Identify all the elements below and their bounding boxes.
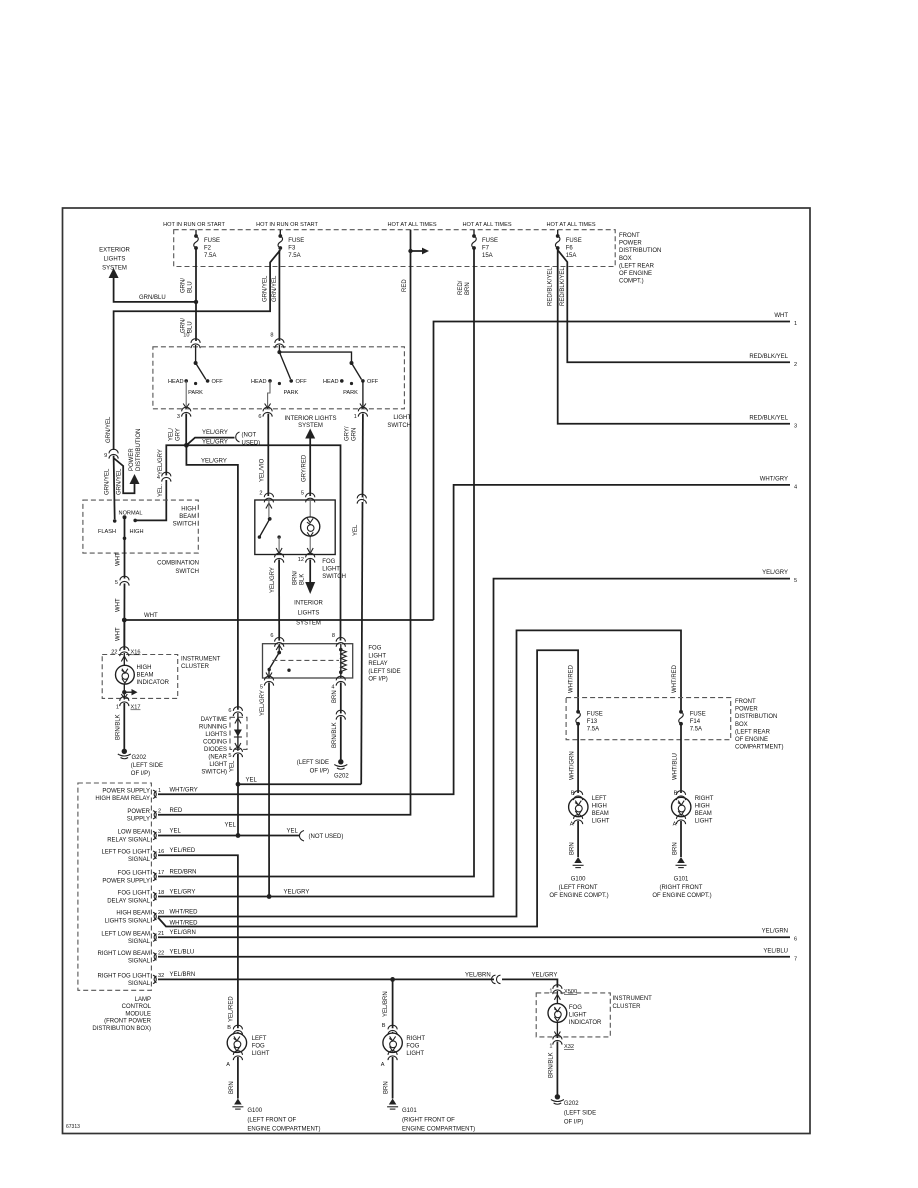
connector 5 (DRL bottom): [233, 748, 242, 757]
switch 3 PARK contact: [350, 382, 353, 385]
svg-text:YEL/GRY: YEL/GRY: [284, 890, 310, 896]
svg-text:WHT: WHT: [774, 313, 788, 319]
wire feed stub above fuse F2: [195, 230, 197, 236]
connector X32 (instrument cluster bottom): [553, 1035, 562, 1044]
wire GRN/YEL: fuse F3 right branch to light switch pin 8: [278, 250, 280, 341]
svg-text:G202(LEFT SIDEOF I/P): G202(LEFT SIDEOF I/P): [131, 755, 163, 777]
combination switch dashed box: [83, 500, 198, 553]
svg-text:HIGHBEAMINDICATOR: HIGHBEAMINDICATOR: [137, 665, 170, 686]
node GRN/BLU branch: [194, 300, 198, 304]
switch 1 OFF contact: [206, 379, 210, 383]
svg-text:WHT: WHT: [144, 613, 158, 619]
connector relay pin 8: [336, 637, 345, 646]
svg-text:FUSEF615A: FUSEF615A: [566, 238, 582, 259]
wire YEL/GRY relay pin 5 down to module pin 18 line: [268, 683, 270, 897]
svg-text:GRY/RED: GRY/RED: [302, 454, 308, 482]
svg-text:YEL/VIO: YEL/VIO: [260, 458, 266, 482]
svg-text:HEAD: HEAD: [323, 379, 339, 385]
svg-text:NORMAL: NORMAL: [119, 511, 143, 517]
svg-text:GRN/YEL: GRN/YEL: [116, 468, 122, 495]
daytime running lights coding diodes dashed box: [230, 717, 247, 749]
svg-text:YEL: YEL: [287, 829, 299, 835]
svg-text:FOG LIGHTDELAY SIGNAL: FOG LIGHTDELAY SIGNAL: [107, 891, 150, 905]
ground G100 (left high beam light): [573, 857, 584, 868]
connector fog switch pin 2: [264, 493, 273, 502]
RED feed: stub from box top, node, arrow into box: [410, 230, 412, 251]
svg-text:17: 17: [158, 870, 164, 876]
exit chevron: [121, 694, 127, 699]
svg-text:5: 5: [228, 753, 231, 759]
relay actuation dashed link: [272, 659, 339, 661]
fog switch left contact: [258, 535, 261, 538]
svg-text:B: B: [227, 1025, 231, 1031]
fuse F13: [576, 710, 581, 726]
fog switch bulb feed: [309, 500, 311, 517]
fog light indicator feed: [556, 991, 558, 1004]
svg-text:FUSEF27.5A: FUSEF27.5A: [204, 238, 220, 259]
svg-text:YEL/GRY: YEL/GRY: [158, 449, 164, 475]
wire GRN/BLU from fuse F2 to light switch pin 10: [195, 249, 197, 342]
fuse F7: [472, 234, 477, 250]
relay coil: [340, 644, 342, 678]
wire feed stub above fuse F7: [473, 230, 475, 236]
svg-text:YEL/BRN: YEL/BRN: [383, 991, 389, 1017]
wire WHT horizontal to right riser: [124, 619, 433, 621]
svg-text:67313: 67313: [66, 1124, 80, 1130]
svg-text:HOT AT ALL TIMES: HOT AT ALL TIMES: [546, 222, 595, 228]
high beam switch pivot: [123, 515, 127, 519]
svg-text:YEL/RED: YEL/RED: [170, 848, 196, 854]
module pin 32: [153, 975, 157, 983]
svg-text:5: 5: [115, 580, 118, 586]
svg-text:B: B: [382, 1023, 386, 1029]
node YEL/GRY joins pin 18 wire: [267, 894, 272, 899]
svg-text:FUSEF37.5A: FUSEF37.5A: [288, 238, 304, 259]
svg-text:A: A: [570, 822, 574, 828]
fog switch output contact: [277, 535, 280, 538]
svg-text:LAMPCONTROLMODULE(FRONT POWERD: LAMPCONTROLMODULE(FRONT POWERDISTRIBUTIO…: [92, 997, 151, 1032]
svg-text:HIGHBEAMSWITCH: HIGHBEAMSWITCH: [173, 507, 197, 528]
svg-text:1: 1: [794, 321, 797, 327]
wire RED/BRN from fuse F7 to module pin 17: [158, 249, 474, 877]
svg-text:YEL/GRY: YEL/GRY: [202, 439, 228, 445]
svg-text:WHT/RED: WHT/RED: [170, 920, 199, 926]
svg-text:YEL/GRN: YEL/GRN: [170, 930, 196, 936]
svg-text:1: 1: [549, 1044, 552, 1050]
wire GRN/YEL branch to power distribution arrow: [114, 458, 135, 493]
fog switch bulb exit arrow: [307, 548, 313, 554]
wire WHT node to cluster connector: [123, 620, 125, 650]
svg-text:10: 10: [183, 333, 189, 339]
svg-text:WHT/RED: WHT/RED: [672, 664, 678, 693]
wire GRN/YEL: fuse F3 left branch down-left-down to connector 9: [114, 250, 281, 450]
svg-text:FOGLIGHTINDICATOR: FOGLIGHTINDICATOR: [569, 1005, 602, 1026]
svg-text:BRN: BRN: [229, 1081, 235, 1094]
switch 1 PARK contact: [194, 382, 197, 385]
svg-text:8: 8: [332, 633, 335, 639]
fog switch entry arrow (pin 2): [266, 503, 272, 509]
wire YEL/GRY connector to instrument cluster X500: [502, 979, 557, 987]
svg-text:FOGLIGHTRELAY(LEFT SIDEOF I/P): FOGLIGHTRELAY(LEFT SIDEOF I/P): [368, 646, 400, 683]
svg-text:INSTRUMENTCLUSTER: INSTRUMENTCLUSTER: [181, 657, 221, 671]
svg-text:BRN: BRN: [570, 842, 576, 855]
svg-text:HOT AT ALL TIMES: HOT AT ALL TIMES: [387, 222, 436, 228]
svg-text:4: 4: [331, 685, 334, 691]
ground G101 (right high beam light): [676, 857, 687, 868]
svg-text:YEL/RED: YEL/RED: [229, 996, 235, 1022]
svg-text:YEL/GRY: YEL/GRY: [762, 570, 788, 576]
svg-text:FLASH: FLASH: [98, 529, 116, 535]
wire WHT connector 5 to node: [123, 584, 125, 651]
relay contact dot: [287, 669, 290, 672]
connector below fog switch (YEL/GRY out): [275, 553, 284, 562]
ground G202 (fog light indicator): [551, 1094, 564, 1104]
fuse F14: [679, 710, 684, 726]
connector pin 8 (light switch top): [275, 339, 284, 348]
svg-text:(NOTUSED): (NOTUSED): [242, 433, 261, 447]
node and stub arrow right: [122, 690, 126, 694]
fog light switch box: [255, 500, 335, 555]
wire YEL horizontal to DRL node: [238, 783, 361, 785]
svg-text:RED/BLK/YEL: RED/BLK/YEL: [749, 415, 788, 421]
svg-text:YEL/GRY: YEL/GRY: [170, 890, 196, 896]
HIGH contact: [133, 519, 137, 523]
svg-text:HOT AT ALL TIMES: HOT AT ALL TIMES: [462, 222, 511, 228]
svg-text:BRN/BLK: BRN/BLK: [293, 570, 306, 585]
svg-text:RIGHTHIGHBEAMLIGHT: RIGHTHIGHBEAMLIGHT: [695, 796, 714, 825]
switch 3 output to pin 1: [362, 381, 364, 409]
wire BRN/BLK to ground G202: [123, 703, 125, 750]
svg-text:WHT: WHT: [116, 627, 122, 641]
wire WHT riser and wire 1 to right edge: [434, 322, 791, 621]
svg-text:22: 22: [111, 650, 117, 656]
connector 1 / X17: [120, 697, 129, 706]
svg-text:5: 5: [794, 578, 797, 584]
svg-text:4: 4: [794, 484, 797, 490]
svg-text:POWER SUPPLYHIGH BEAM RELAY: POWER SUPPLYHIGH BEAM RELAY: [95, 789, 150, 803]
svg-text:GRN/BLU: GRN/BLU: [139, 295, 166, 301]
wire YEL/BRN pin 32 to right fog light node and connector: [158, 978, 494, 980]
svg-text:6: 6: [270, 633, 273, 639]
svg-text:RED/BLK/YEL: RED/BLK/YEL: [560, 267, 566, 306]
svg-text:YEL/GRY: YEL/GRY: [169, 428, 182, 441]
svg-text:POWERDISTRIBUTION: POWERDISTRIBUTION: [129, 429, 142, 471]
ground G101 (right fog light): [387, 1099, 398, 1110]
connector relay pin 4: [336, 676, 345, 685]
connector fog switch pin 12: [306, 553, 315, 562]
wire BRN relay pin 4 to connector: [340, 683, 342, 714]
svg-text:RED/BLK/YEL: RED/BLK/YEL: [548, 267, 554, 306]
svg-text:RED/BRN: RED/BRN: [458, 280, 471, 295]
svg-text:GRN/YEL: GRN/YEL: [106, 416, 112, 443]
connector 9 (combination switch feed): [109, 449, 118, 458]
wire WHT/RED pin 20 lower to fuse F13: [158, 650, 578, 926]
svg-text:1: 1: [116, 705, 119, 711]
svg-text:LEFT LOW BEAMSIGNAL: LEFT LOW BEAMSIGNAL: [101, 931, 150, 945]
svg-text:YEL/GRN: YEL/GRN: [762, 929, 788, 935]
switch 1 HEAD contact: [184, 379, 188, 383]
svg-text:OFF: OFF: [367, 379, 379, 385]
switch 3 OFF contact: [361, 379, 365, 383]
svg-text:RIGHT LOW BEAMSIGNAL: RIGHT LOW BEAMSIGNAL: [97, 951, 150, 965]
not-used bracket and caption: [236, 432, 240, 442]
wire BRN/BLK to ground G202: [340, 717, 342, 761]
svg-text:HEAD: HEAD: [251, 379, 267, 385]
off-page arrow up to interior lights system: [305, 429, 315, 439]
svg-text:B: B: [674, 791, 678, 797]
svg-text:G101(RIGHT FRONT OFENGINE COMP: G101(RIGHT FRONT OFENGINE COMPARTMENT): [402, 1108, 475, 1133]
svg-text:GRN/BLU: GRN/BLU: [181, 278, 194, 293]
svg-text:6: 6: [258, 414, 261, 420]
fog light relay box: [263, 644, 353, 678]
svg-text:G100(LEFT FRONT OFENGINE COMPA: G100(LEFT FRONT OFENGINE COMPARTMENT): [247, 1108, 320, 1133]
svg-text:1: 1: [549, 989, 552, 995]
svg-text:BRN/BLK: BRN/BLK: [549, 1052, 555, 1078]
svg-text:X17: X17: [131, 705, 141, 711]
connector pin 6 (light switch bottom): [263, 407, 272, 416]
svg-text:G202(LEFT SIDEOF I/P): G202(LEFT SIDEOF I/P): [564, 1101, 596, 1126]
svg-text:WHT/RED: WHT/RED: [170, 910, 199, 916]
svg-text:RED/BLK/YEL: RED/BLK/YEL: [749, 354, 788, 360]
svg-text:HOT IN RUN OR START: HOT IN RUN OR START: [163, 222, 225, 228]
wire YEL pin 3 to not-used stub: [158, 835, 300, 837]
right fog light connector B: [388, 1025, 397, 1034]
wire BRN/BLK to ground G202: [556, 1042, 558, 1096]
right high beam light connector A: [676, 815, 685, 824]
svg-text:FUSEF147.5A: FUSEF147.5A: [690, 712, 706, 733]
svg-text:GRN/YEL: GRN/YEL: [105, 468, 111, 495]
svg-text:9: 9: [104, 453, 107, 459]
fuse F3: [278, 234, 283, 250]
ground G202 (instrument cluster): [118, 749, 131, 759]
switch 3 HEAD contact: [340, 379, 344, 383]
svg-text:BRN/BLK: BRN/BLK: [116, 714, 122, 740]
svg-text:YEL/GRY: YEL/GRY: [202, 430, 228, 436]
wire BRN/BLK fog switch pin 12 down: [309, 560, 311, 584]
left fog light connector A: [233, 1051, 242, 1060]
left fog light bulb: [237, 1032, 239, 1033]
svg-text:HIGH BEAMLIGHTS SIGNAL: HIGH BEAMLIGHTS SIGNAL: [105, 911, 151, 925]
module pin 17: [153, 872, 157, 880]
module pin 1: [153, 790, 157, 798]
wire YEL/GRY fog switch to relay pin 6: [278, 560, 280, 643]
svg-text:PARK: PARK: [284, 390, 299, 396]
off-page arrow to power distribution: [130, 474, 140, 484]
svg-text:22: 22: [158, 951, 164, 957]
switch 3 pivot: [350, 361, 354, 365]
switch 2 OFF contact: [289, 379, 293, 383]
svg-text:OFF: OFF: [212, 379, 224, 385]
svg-text:YEL/BRN: YEL/BRN: [170, 972, 196, 978]
svg-text:GRY/GRN: GRY/GRN: [345, 426, 358, 441]
switch 2 arm to OFF: [279, 352, 290, 379]
svg-text:(LEFT SIDEOF I/P): (LEFT SIDEOF I/P): [297, 760, 329, 775]
svg-text:YEL/BRN: YEL/BRN: [465, 972, 491, 978]
wire YEL/BRN right fog light drop: [392, 979, 394, 1028]
svg-text:(NOT USED): (NOT USED): [309, 834, 344, 840]
switch section 1: feed wire to pivot: [195, 345, 197, 363]
svg-text:YEL/GRY: YEL/GRY: [532, 972, 558, 978]
high beam switch arm (normal position): [124, 517, 126, 538]
wire RED vertical (fusebox to module pin 2): [158, 251, 411, 815]
high beam indicator feed wire: [123, 653, 125, 665]
svg-text:A: A: [673, 822, 677, 828]
wire YEL/GRY main run to fog light relay pin 8: [186, 445, 340, 640]
module pin 21: [153, 933, 157, 941]
wire YEL/GRY (wire 5) from module pin 18 to right edge: [158, 579, 790, 897]
svg-text:PARK: PARK: [343, 390, 358, 396]
svg-text:HOT IN RUN OR START: HOT IN RUN OR START: [256, 222, 318, 228]
svg-text:POWERSUPPLY: POWERSUPPLY: [127, 809, 151, 823]
wire WHT/GRY (wire 4) from module pin 1 to right edge: [158, 485, 790, 794]
fog light indicator bulb: [548, 1004, 567, 1023]
wire BRN to ground G100: [237, 1057, 239, 1099]
junction node YEL/GRY hub: [184, 443, 189, 448]
node YEL at DRL bottom: [236, 782, 241, 787]
svg-text:HEAD: HEAD: [168, 379, 184, 385]
DRL internal wire with arrows: [237, 713, 239, 751]
connector X500 (instrument cluster top): [553, 985, 562, 994]
connector pin 1 (light switch bottom): [358, 407, 367, 416]
module pin 16: [153, 851, 157, 859]
light switch dashed box: [153, 347, 405, 409]
svg-text:18: 18: [158, 890, 164, 896]
wire YEL/GRN (wire 6) from module pin 21 to right edge: [158, 936, 790, 938]
instrument cluster dashed box (high beam indicator): [102, 655, 178, 699]
svg-text:HIGH: HIGH: [130, 529, 144, 535]
connector pin 3 (light switch bottom): [182, 407, 191, 416]
svg-text:WHT/RED: WHT/RED: [569, 664, 575, 693]
svg-text:G101(RIGHT FRONTOF ENGINE COMP: G101(RIGHT FRONTOF ENGINE COMPT.): [652, 877, 711, 900]
svg-text:2: 2: [259, 491, 262, 497]
svg-text:LEFTHIGHBEAMLIGHT: LEFTHIGHBEAMLIGHT: [592, 796, 610, 825]
instrument cluster dashed box (fog light indicator): [536, 993, 610, 1037]
svg-text:YEL: YEL: [170, 829, 182, 835]
svg-text:3: 3: [794, 423, 797, 429]
module pin 20: [153, 912, 157, 920]
svg-text:BRN/BLK: BRN/BLK: [332, 722, 338, 748]
wire BRN to ground G101: [680, 821, 682, 857]
connector 4: [162, 472, 171, 481]
high beam indicator bulb: [116, 665, 135, 684]
svg-text:RIGHTFOGLIGHT: RIGHTFOGLIGHT: [406, 1036, 425, 1057]
svg-text:RED: RED: [402, 279, 408, 292]
svg-text:YEL.: YEL.: [158, 484, 164, 497]
relay switch: entry arrow, pivot, arm, exit arrow: [278, 644, 280, 653]
svg-text:X16: X16: [131, 650, 141, 656]
front power distribution box (top, dashed): [174, 230, 616, 267]
svg-text:6: 6: [794, 937, 797, 943]
svg-text:LEFTFOGLIGHT: LEFTFOGLIGHT: [252, 1036, 270, 1057]
svg-text:YEL/GRY: YEL/GRY: [270, 567, 276, 593]
wire GRN/YEL connector 9 to FLASH contact: [114, 456, 115, 519]
svg-text:WHT: WHT: [116, 598, 122, 612]
off-page arrow to exterior lights system: [109, 268, 119, 278]
wire YEL/BLU (wire 7) from module pin 22 to right edge: [158, 956, 790, 958]
right high beam light connector B: [676, 791, 685, 800]
wire YEL/VIO light switch pin 6 to fog switch pin 2: [267, 414, 269, 496]
left fog light connector B: [233, 1025, 242, 1034]
svg-text:INTERIORLIGHTSSYSTEM: INTERIORLIGHTSSYSTEM: [294, 601, 323, 627]
svg-text:21: 21: [158, 931, 164, 937]
svg-text:1: 1: [158, 788, 161, 794]
svg-text:YEL/GRY: YEL/GRY: [201, 458, 227, 464]
svg-text:WHT/GRY: WHT/GRY: [170, 787, 198, 793]
svg-text:20: 20: [158, 910, 164, 916]
wire WHT from switch output down: [124, 538, 126, 578]
svg-text:WHT/GRY: WHT/GRY: [760, 476, 788, 482]
wire BRN to ground G101: [392, 1057, 394, 1099]
svg-text:B: B: [571, 791, 575, 797]
connector relay pin 5: [264, 676, 273, 685]
page border frame: [63, 208, 811, 1134]
arrow right inside distribution box: [411, 250, 424, 252]
wire BRN to ground G100: [577, 821, 579, 857]
svg-text:6: 6: [228, 708, 231, 714]
module pin 18: [153, 892, 157, 900]
wire GRN/BLU branch to exterior lights system: [114, 277, 196, 302]
switch 2 HEAD contact: [268, 379, 272, 383]
switch 1 output to pin 3: [185, 381, 187, 409]
svg-text:YEL/GRY: YEL/GRY: [260, 690, 266, 716]
connector 5 (WHT inline): [120, 576, 129, 585]
svg-text:16: 16: [158, 849, 164, 855]
node right fog light feed: [390, 977, 395, 982]
module pin 3: [153, 831, 157, 839]
not-used bracket and caption (pin 3): [299, 831, 304, 842]
svg-text:FRONTPOWERDISTRIBUTIONBOX(LEFT: FRONTPOWERDISTRIBUTIONBOX(LEFT REAROF EN…: [735, 699, 783, 751]
svg-text:FOG LIGHTPOWER SUPPLY: FOG LIGHTPOWER SUPPLY: [102, 871, 150, 885]
svg-text:WHT/BLU: WHT/BLU: [673, 753, 679, 780]
right fog light connector A: [388, 1051, 397, 1060]
front power distribution box (lower, dashed): [566, 698, 731, 740]
svg-text:G202: G202: [334, 774, 349, 780]
wire WHT/RED pin 20 upper to fuse F14: [158, 630, 681, 916]
wire YEL/GRY pin 3 to junction node: [185, 414, 187, 446]
svg-text:4: 4: [157, 475, 160, 481]
svg-text:2: 2: [158, 809, 161, 815]
left high beam light connector A: [574, 815, 583, 824]
svg-text:5: 5: [260, 685, 263, 691]
svg-text:GRN/BLU: GRN/BLU: [181, 318, 194, 333]
svg-text:PARK: PARK: [188, 390, 203, 396]
svg-text:FOGLIGHTSWITCH: FOGLIGHTSWITCH: [322, 559, 346, 580]
svg-text:DAYTIMERUNNINGLIGHTSCODINGDIOD: DAYTIMERUNNINGLIGHTSCODINGDIODES(NEARLIG…: [199, 717, 228, 776]
diode symbol: [234, 730, 242, 737]
svg-text:OFF: OFF: [296, 379, 308, 385]
svg-text:YEL: YEL: [225, 823, 237, 829]
wire GRY/RED fog switch pin 5 up to interior lights arrow: [309, 437, 311, 496]
wire feed stub above fuse F3: [279, 230, 281, 236]
svg-text:FRONTPOWERDISTRIBUTIONBOX(LEFT: FRONTPOWERDISTRIBUTIONBOX(LEFT REAROF EN…: [619, 233, 661, 285]
svg-text:RED: RED: [170, 808, 183, 814]
switch 2 output jog to pin 6: [268, 381, 270, 409]
svg-text:COMBINATIONSWITCH: COMBINATIONSWITCH: [157, 561, 199, 576]
svg-text:GRN/YEL: GRN/YEL: [272, 275, 278, 302]
off-page arrow down to interior lights system: [305, 582, 315, 594]
inline connector (BRN/BLK): [336, 710, 345, 719]
wire YEL/GRY drop to DRL diodes: [186, 445, 238, 710]
svg-text:RIGHT FOG LIGHTSIGNAL: RIGHT FOG LIGHTSIGNAL: [97, 974, 150, 988]
right fog light bulb: [383, 1033, 402, 1052]
svg-text:WHT/GRN: WHT/GRN: [570, 751, 576, 780]
wire below indicator with node: [123, 684, 125, 700]
right fog light wire into bulb: [392, 1032, 394, 1033]
wire RED/BLK/YEL: fuse F6 main down, to right edge (wire 3): [558, 249, 790, 424]
svg-text:BRN: BRN: [332, 690, 338, 703]
svg-text:WHT: WHT: [116, 552, 122, 566]
node YEL at DRL string: [236, 833, 241, 838]
